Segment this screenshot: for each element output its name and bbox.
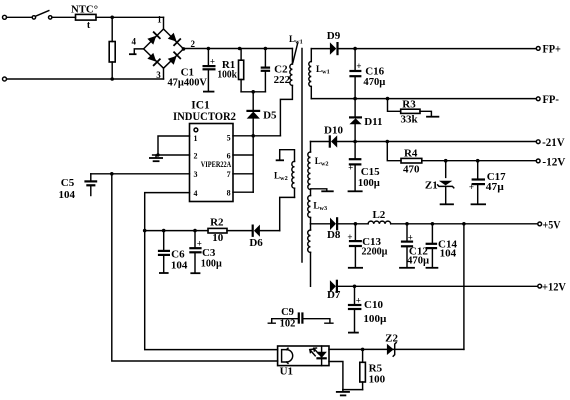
svg-text:U1: U1 <box>280 366 293 378</box>
svg-text:D7: D7 <box>327 289 341 301</box>
diode D5 <box>246 92 277 136</box>
capacitor C17 <box>469 159 506 204</box>
terminal FP- <box>536 97 540 101</box>
inductor Lw3 secondary winding <box>308 196 327 224</box>
switch S1 <box>32 11 52 20</box>
wire +12V rail <box>337 285 538 287</box>
svg-text:4: 4 <box>131 37 136 47</box>
node R4 junction <box>386 140 390 144</box>
capacitor C3 <box>189 229 222 273</box>
inductor Lw2 aux winding <box>274 150 295 198</box>
wire R1-C2 bottom <box>241 91 265 93</box>
capacitor C15 <box>348 142 381 192</box>
svg-text:D10: D10 <box>324 125 343 137</box>
bridge diode bottom-right <box>167 52 181 66</box>
diode D6 <box>249 225 279 250</box>
node pin3 junction <box>110 172 114 176</box>
terminal AC-N <box>3 77 7 81</box>
svg-text:R2: R2 <box>210 216 224 228</box>
svg-text:VIPER22A: VIPER22A <box>201 159 232 169</box>
wire D6 to aux winding <box>280 197 295 230</box>
svg-text:+: + <box>356 61 361 71</box>
svg-text:R3: R3 <box>402 99 416 111</box>
wire <box>7 78 164 80</box>
svg-text:+: + <box>210 56 215 66</box>
node D5 junction <box>251 90 255 94</box>
capacitor C13 <box>347 222 388 268</box>
svg-text:Z2: Z2 <box>385 333 398 345</box>
optocoupler U1 <box>278 346 329 378</box>
svg-text:NTC°: NTC° <box>71 4 98 16</box>
zener Z1 <box>425 159 454 204</box>
diode D8 <box>311 217 369 241</box>
IC IC1 VIPER22A <box>173 100 236 202</box>
resistor R3 <box>388 99 440 126</box>
svg-text:2: 2 <box>194 152 198 161</box>
capacitor C2 <box>261 47 291 92</box>
capacitor C1 <box>167 47 215 92</box>
svg-text:100µ: 100µ <box>201 257 223 269</box>
bridge rectifier <box>144 29 184 68</box>
node junction top <box>110 15 114 19</box>
wire pin2 <box>153 154 190 156</box>
wire pin1 <box>158 136 190 155</box>
svg-text:470: 470 <box>403 163 420 175</box>
svg-text:100k: 100k <box>217 69 237 81</box>
node R3 junction <box>386 97 390 101</box>
terminal -21V <box>536 140 540 144</box>
svg-text:100µ: 100µ <box>363 313 387 325</box>
svg-text:5: 5 <box>227 134 231 143</box>
svg-text:102: 102 <box>280 318 296 329</box>
svg-text:1: 1 <box>157 15 162 25</box>
wire HV bus <box>184 48 293 50</box>
wire C6 C3 row <box>145 230 208 232</box>
wire pins5-8 vertical <box>252 136 254 192</box>
zener Z2 <box>385 333 398 357</box>
node 2 junction <box>182 47 186 51</box>
wire secondary center tap <box>311 189 334 192</box>
wire pin5 <box>233 135 280 137</box>
capacitor C9 <box>268 307 333 329</box>
svg-text:470µ: 470µ <box>407 254 430 266</box>
svg-text:104: 104 <box>440 247 457 259</box>
wire <box>7 16 32 18</box>
svg-text:D11: D11 <box>364 116 382 128</box>
wire aux-source left vertical <box>112 174 278 361</box>
svg-text:C10: C10 <box>364 299 383 311</box>
inductor Lw1 secondary winding <box>309 49 330 99</box>
svg-text:D6: D6 <box>249 237 263 249</box>
wire pin7 <box>233 173 253 175</box>
wire <box>163 68 165 79</box>
resistor R5 <box>360 349 386 389</box>
svg-text:INDUCTOR2: INDUCTOR2 <box>173 111 236 123</box>
diode D11 <box>349 99 383 142</box>
capacitor C6 <box>158 229 188 273</box>
svg-text:104: 104 <box>171 260 188 272</box>
capacitor C10 <box>348 285 387 333</box>
svg-text:D5: D5 <box>263 110 277 122</box>
wire FP+ rail <box>338 48 537 50</box>
wire U1 to Z2 line <box>329 348 464 350</box>
wire pin4 <box>145 193 190 231</box>
svg-text:L2: L2 <box>372 209 385 221</box>
transformer core <box>301 49 303 263</box>
resistor R4 <box>387 142 422 176</box>
terminal FP+ <box>536 47 540 51</box>
wire pin3 <box>91 173 190 175</box>
inductor Lw2 secondary winding <box>308 142 329 196</box>
svg-text:FP+: FP+ <box>542 44 561 56</box>
diode D10 <box>311 125 344 148</box>
node C16 FP- junction <box>353 97 357 101</box>
wire pin8 <box>233 191 253 193</box>
svg-text:10: 10 <box>212 232 224 244</box>
inductor secondary winding 4 <box>308 224 311 286</box>
svg-text:C15: C15 <box>361 166 380 178</box>
svg-text:47µ400V: 47µ400V <box>167 76 207 88</box>
ground pin2 <box>149 155 163 161</box>
wire feedback vertical <box>462 222 466 349</box>
svg-text:+: + <box>469 182 474 192</box>
svg-text:-21V: -21V <box>542 137 565 149</box>
inductor Lw1 primary winding <box>280 49 292 136</box>
capacitor C14 <box>426 222 458 268</box>
resistor R1 <box>217 47 243 92</box>
svg-text:47µ: 47µ <box>486 181 505 193</box>
terminal +12V <box>538 284 542 288</box>
inductor L2 <box>368 209 391 224</box>
svg-text:+5V: +5V <box>543 219 562 231</box>
thermistor NTC <box>71 4 98 31</box>
node R5 junction <box>361 348 365 352</box>
terminal AC-L <box>3 15 7 19</box>
terminal -12V <box>536 159 540 163</box>
svg-text:FP-: FP- <box>542 94 559 106</box>
svg-text:+: + <box>348 163 353 173</box>
svg-text:D9: D9 <box>327 30 341 42</box>
wire pin4 down vertical <box>145 231 278 350</box>
svg-text:C5: C5 <box>61 177 75 189</box>
wire U1 lower right <box>329 362 343 390</box>
wire pin6 <box>233 154 253 156</box>
node 4 stub <box>134 49 143 54</box>
svg-text:+12V: +12V <box>542 282 567 294</box>
resistor input (unlabeled) <box>109 17 115 79</box>
svg-text:33k: 33k <box>400 113 418 125</box>
svg-text:-12V: -12V <box>542 156 566 168</box>
bridge diode top-right <box>167 32 181 46</box>
node junction bottom <box>110 77 114 81</box>
node C6C3 junction left <box>143 229 147 233</box>
svg-text:R4: R4 <box>404 147 418 159</box>
svg-text:4: 4 <box>194 189 198 198</box>
wire <box>163 17 165 29</box>
svg-text:Z1: Z1 <box>425 180 438 192</box>
svg-text:2200µ: 2200µ <box>362 246 389 258</box>
bridge diode top-left <box>147 32 161 46</box>
inductor Lw1 primary label <box>289 34 303 63</box>
capacitor C5 <box>59 174 98 201</box>
resistor R2 <box>208 216 253 244</box>
svg-text:7: 7 <box>227 170 231 179</box>
wire R5 bottom to ground <box>343 389 363 391</box>
node pin5 junction <box>251 134 255 138</box>
wire -12V rail <box>422 160 536 162</box>
svg-text:C6: C6 <box>171 248 185 260</box>
svg-text:8: 8 <box>227 189 231 198</box>
bridge diode bottom-left <box>147 52 161 66</box>
svg-text:2: 2 <box>191 39 196 49</box>
node C15 junction <box>353 140 357 144</box>
svg-text:3: 3 <box>194 170 198 179</box>
capacitor C12 <box>399 222 430 268</box>
svg-text:IC1: IC1 <box>191 100 210 112</box>
svg-text:3: 3 <box>156 70 161 80</box>
svg-text:222: 222 <box>274 74 291 86</box>
svg-text:104: 104 <box>59 189 76 201</box>
svg-text:100µ: 100µ <box>358 177 381 189</box>
svg-text:1: 1 <box>194 134 198 143</box>
wire +5V rail <box>391 223 538 225</box>
svg-text:100: 100 <box>369 374 386 386</box>
diode D7 <box>327 280 341 301</box>
svg-text:470µ: 470µ <box>363 76 386 88</box>
wire FP- rail <box>311 98 536 100</box>
wire -21V rail <box>337 141 536 143</box>
svg-text:C9: C9 <box>281 307 294 318</box>
capacitor C16 <box>349 47 386 99</box>
wire <box>96 16 164 18</box>
terminal +5V <box>538 222 542 226</box>
ground feedback <box>336 390 350 396</box>
wire <box>52 16 76 18</box>
diode D9 <box>311 30 340 55</box>
svg-text:D8: D8 <box>327 229 341 241</box>
